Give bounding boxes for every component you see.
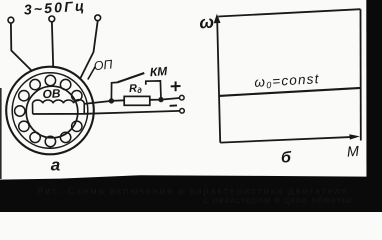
svg-text:КМ: КМ <box>149 64 168 79</box>
junction left <box>109 98 114 103</box>
wire phase L2 <box>52 22 53 67</box>
M axis arrowhead <box>349 134 360 139</box>
svg-text:ω: ω <box>199 11 215 32</box>
terminal minus <box>180 109 185 114</box>
svg-text:а: а <box>51 156 60 175</box>
svg-text:с резистором в цепи обмотки: с резистором в цепи обмотки <box>204 195 353 205</box>
graph right edge <box>360 9 362 140</box>
upper field wire right part <box>150 98 180 100</box>
graph top edge <box>218 9 360 16</box>
contactor KM blade <box>118 73 145 82</box>
stator slot circles <box>15 75 82 146</box>
plus sign <box>171 81 181 91</box>
svg-text:б: б <box>281 150 292 167</box>
svg-text:ОП: ОП <box>93 57 114 73</box>
upper field wire <box>84 100 124 104</box>
OP leader line <box>88 67 96 80</box>
rotor circle <box>26 86 78 138</box>
right page-edge black band <box>366 0 382 212</box>
minus sign <box>170 104 177 106</box>
terminal plus <box>180 95 185 100</box>
resistor Rd box <box>124 96 150 105</box>
terminal L2 <box>49 16 55 22</box>
terminal L1 <box>8 17 14 23</box>
M axis <box>220 137 356 143</box>
omega0 const line <box>219 88 361 96</box>
wire phase L1 <box>11 23 32 70</box>
terminal L3 <box>95 15 101 21</box>
omega axis <box>217 16 220 142</box>
svg-text:ОВ: ОВ <box>42 86 61 101</box>
svg-text:М: М <box>346 144 360 161</box>
contactor KM branch <box>111 81 161 101</box>
field winding OV coil <box>33 100 85 114</box>
junction right <box>158 97 163 102</box>
wire phase L3 <box>81 21 98 78</box>
omega axis arrowhead <box>214 14 221 23</box>
motor M1 stator outer circle <box>6 67 94 155</box>
lower field wire <box>33 111 180 114</box>
motor M1 stator inner circle <box>12 73 88 149</box>
caption black bar <box>0 175 382 212</box>
left page-edge artifact line <box>0 88 2 179</box>
